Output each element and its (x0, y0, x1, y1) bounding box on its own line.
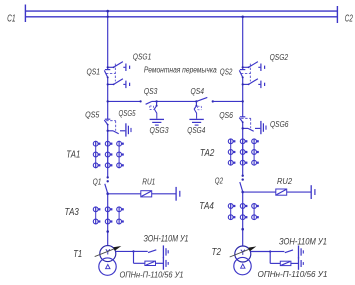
svg-text:QS1: QS1 (87, 67, 101, 77)
svg-text:QS6: QS6 (219, 110, 233, 120)
svg-text:RU1: RU1 (142, 177, 155, 187)
svg-text:Ремонтная перемычка: Ремонтная перемычка (144, 66, 217, 75)
svg-text:QSG5: QSG5 (119, 108, 136, 118)
svg-text:Т1: Т1 (73, 249, 82, 260)
svg-text:ТА2: ТА2 (200, 148, 215, 159)
svg-text:ОПНн-П-110/56 У1: ОПНн-П-110/56 У1 (120, 270, 184, 279)
svg-text:Q1: Q1 (93, 176, 102, 186)
svg-text:QS4: QS4 (191, 86, 205, 96)
svg-text:Т2: Т2 (212, 247, 222, 258)
svg-text:ЗОН-110М У1: ЗОН-110М У1 (279, 237, 327, 247)
svg-text:QS3: QS3 (144, 86, 158, 96)
svg-text:QS5: QS5 (85, 110, 100, 120)
svg-text:QSG1: QSG1 (133, 52, 152, 62)
svg-text:QSG2: QSG2 (270, 52, 289, 62)
svg-text:QSG3: QSG3 (150, 125, 169, 135)
svg-text:ЗОН-110М У1: ЗОН-110М У1 (144, 234, 189, 244)
svg-text:QS2: QS2 (220, 66, 233, 76)
svg-text:QSG6: QSG6 (270, 119, 289, 129)
svg-text:С2: С2 (345, 14, 353, 25)
svg-text:С1: С1 (7, 13, 16, 24)
svg-text:ТА1: ТА1 (66, 149, 80, 160)
svg-text:QSG4: QSG4 (187, 125, 205, 135)
svg-text:ТА3: ТА3 (65, 207, 80, 218)
svg-text:ТА4: ТА4 (199, 201, 214, 212)
svg-text:RU2: RU2 (277, 176, 292, 186)
svg-text:ОПНн-П-110/56 У1: ОПНн-П-110/56 У1 (258, 270, 328, 279)
svg-text:Q2: Q2 (215, 176, 223, 186)
